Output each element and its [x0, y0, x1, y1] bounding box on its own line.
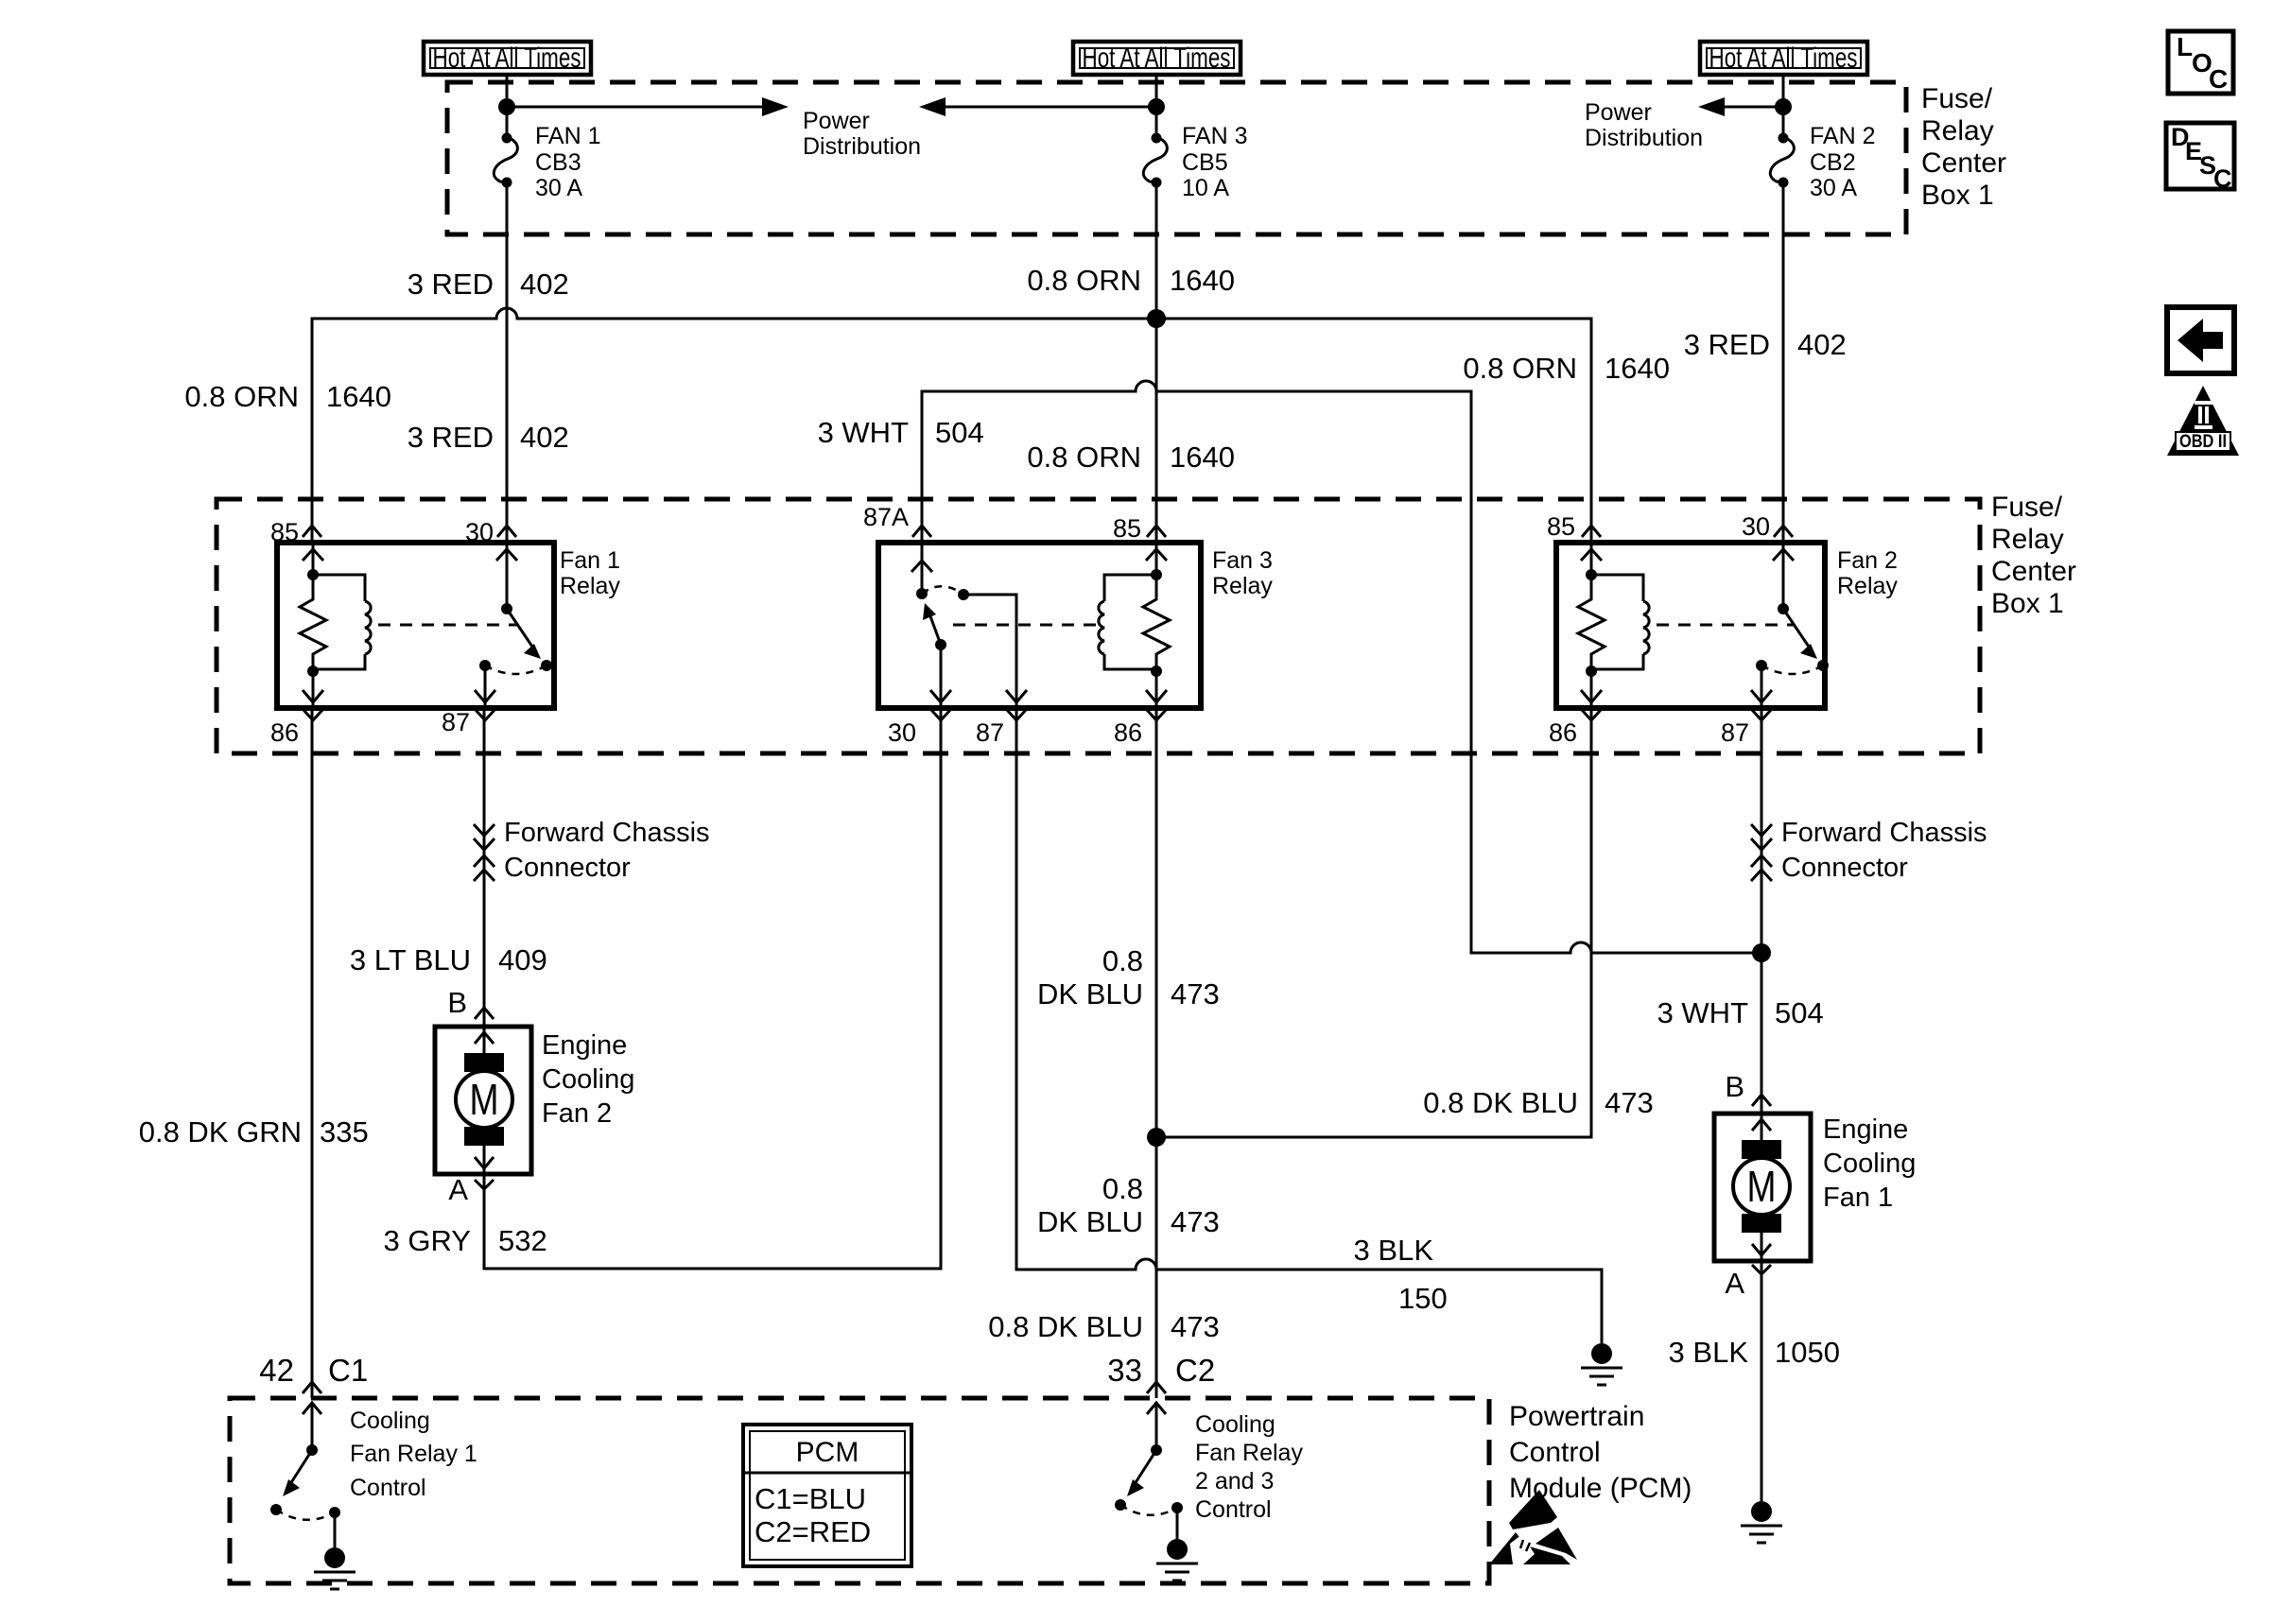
svg-text:30: 30	[1742, 512, 1770, 541]
label Fan 1 Relay	[560, 547, 620, 599]
relay K1 Fan 1 Relay box	[277, 543, 554, 708]
label Fan 2 Relay	[1837, 547, 1898, 599]
value label 3 BLK 1050	[1669, 1336, 1840, 1369]
switch arm end dot relay2	[1817, 660, 1829, 671]
svg-text:M: M	[1747, 1162, 1777, 1211]
switch Cooling Fan Relay 2 and 3 Control	[1115, 1403, 1183, 1539]
switch Cooling Fan Relay 1 Control	[270, 1403, 340, 1547]
svg-text:Center: Center	[1921, 147, 2006, 179]
pin 85 entry arrow relay2	[1581, 549, 1602, 561]
pin 85 entry arrow relay3	[1146, 549, 1167, 561]
node Hot At All Times box 2	[1073, 42, 1241, 75]
wire arm anchor to pin 30 relay3	[940, 645, 943, 705]
svg-text:87A: 87A	[863, 503, 909, 531]
svg-text:33: 33	[1107, 1353, 1142, 1388]
wire contact 87 down relay1	[484, 665, 487, 705]
wire feed from Hot box 2	[1155, 75, 1158, 138]
svg-text:Fan 1: Fan 1	[560, 547, 620, 574]
pin 86 exit arrow relay3	[1146, 690, 1167, 702]
relay K2 Fan 2 Relay box	[1556, 543, 1825, 708]
fuse/relay center box 1 (middle) dashed boundary	[217, 499, 1980, 753]
svg-text:Cooling: Cooling	[1823, 1149, 1916, 1179]
svg-text:Relay: Relay	[1991, 524, 2064, 555]
arrowhead left	[1698, 97, 1725, 116]
pin 30 exit arrow relay3	[930, 690, 951, 702]
svg-text:Fuse/: Fuse/	[1921, 83, 1993, 114]
junction dot ORN at wire2	[1147, 309, 1166, 328]
svg-text:Fuse/: Fuse/	[1991, 492, 2063, 523]
junction dot 3 WHT at relay2-87 wire	[1752, 943, 1771, 962]
value label 3 RED 402 (wire 1, upper)	[408, 268, 569, 301]
svg-text:Engine: Engine	[1823, 1114, 1908, 1145]
svg-text:2 and 3: 2 and 3	[1195, 1468, 1274, 1494]
svg-text:0.8 DK BLU: 0.8 DK BLU	[988, 1310, 1143, 1343]
connector chevron pin B fan2	[475, 1008, 494, 1019]
value label 3 GRY 532	[384, 1224, 547, 1257]
wire CB5 output (0.8 ORN 1640)	[1155, 182, 1158, 545]
svg-text:C2: C2	[1175, 1353, 1215, 1388]
ground G105 (relay 1 control)	[314, 1547, 356, 1589]
label Powertrain Control Module (PCM)	[1509, 1401, 1692, 1504]
svg-text:85: 85	[1547, 512, 1575, 541]
pin 87 exit arrow relay1	[475, 690, 495, 702]
label Engine Cooling Fan 2	[542, 1030, 634, 1129]
label Fan 3 Relay	[1212, 547, 1273, 599]
value label 3 RED 402 (wire 1, lower)	[408, 421, 569, 454]
label Fuse/Relay Center Box 1 (top)	[1921, 83, 2006, 211]
value label 3 WHT 504 (left)	[818, 416, 984, 449]
svg-text:Fan Relay 1: Fan Relay 1	[350, 1441, 477, 1467]
svg-text:L: L	[2177, 32, 2193, 61]
value label 3 RED 402 (wire 3)	[1684, 328, 1847, 361]
svg-text:C1: C1	[328, 1353, 368, 1388]
svg-text:3 RED: 3 RED	[408, 268, 494, 301]
svg-text:402: 402	[1797, 328, 1847, 361]
svg-text:1050: 1050	[1775, 1336, 1840, 1369]
PCM connector legend box	[743, 1425, 911, 1566]
svg-text:3 WHT: 3 WHT	[818, 416, 910, 449]
svg-text:3 BLK: 3 BLK	[1354, 1234, 1434, 1267]
PCM dashed boundary	[230, 1398, 1489, 1583]
switch contact 87 dot relay2	[1756, 660, 1767, 671]
svg-text:Engine: Engine	[542, 1030, 627, 1061]
wire 3 BLK 1050 to ground	[1761, 1261, 1763, 1501]
switch arm arrowhead relay2	[1800, 644, 1817, 659]
resistor relay3 coil suppression	[1143, 575, 1170, 671]
connector chevron pin 42 C1	[303, 1382, 321, 1393]
wire coil to pin 86 relay2	[1590, 671, 1593, 705]
pin 87 exit arrow relay3	[1006, 690, 1027, 702]
svg-text:CB2: CB2	[1810, 149, 1856, 176]
svg-text:CB5: CB5	[1182, 149, 1228, 176]
wire relay2-87 / 3 WHT 504 down	[1761, 708, 1763, 1114]
wire contact 87 down relay2	[1761, 665, 1763, 705]
arrowhead left	[919, 97, 946, 116]
switch arm relay3	[930, 616, 941, 645]
circuit breaker CB3 FAN 1 30 A	[494, 123, 600, 201]
value label 0.8 DK BLU 473 (bottom, single line)	[988, 1310, 1219, 1343]
wire power distribution left	[507, 106, 768, 109]
svg-text:402: 402	[520, 268, 569, 301]
value label 3 WHT 504 (right)	[1657, 996, 1824, 1029]
label Power Distribution (right)	[1585, 99, 1703, 151]
resistor relay2 coil suppression	[1578, 575, 1605, 671]
wire power distribution right	[1719, 106, 1783, 109]
pin 87A entry arrow relay3	[911, 561, 932, 572]
svg-text:DK BLU: DK BLU	[1037, 1205, 1143, 1238]
ground G103 (3 BLK 150)	[1581, 1343, 1622, 1385]
fuse/relay center box 1 (top) dashed boundary	[447, 82, 1906, 234]
svg-text:150: 150	[1398, 1282, 1448, 1315]
svg-text:0.8 DK GRN: 0.8 DK GRN	[139, 1115, 302, 1149]
svg-text:0.8 ORN: 0.8 ORN	[1463, 352, 1577, 385]
switch arm arrowhead relay3	[923, 603, 936, 620]
svg-text:42: 42	[259, 1353, 294, 1388]
node coil top dot relay1	[307, 569, 319, 580]
svg-text:473: 473	[1171, 977, 1220, 1011]
label Power Distribution (left)	[803, 108, 921, 160]
connector chevron pin 30 relay2	[1774, 526, 1793, 537]
icon DESC box	[2166, 123, 2234, 193]
svg-text:473: 473	[1605, 1086, 1654, 1119]
label Cooling Fan Relay 2 and 3 Control	[1195, 1411, 1303, 1523]
junction dot	[1775, 98, 1792, 115]
wire 0.8 ORN 1640 horizontal net with hop over wire 402	[312, 308, 1591, 545]
wire pin85 to coil relay2	[1590, 545, 1593, 575]
pin 87 exit arrow relay2	[1751, 690, 1772, 702]
connector Forward Chassis Connector (right)	[1751, 824, 1772, 881]
connector chevron pin 85 relay2	[1582, 526, 1601, 537]
resistor relay1 coil suppression	[300, 575, 326, 671]
connector chevron pin 87A relay3	[912, 526, 931, 537]
junction dot	[1148, 98, 1165, 115]
connector chevron pin B fan1	[1752, 1095, 1771, 1106]
node coil bottom dot relay2	[1586, 665, 1597, 677]
mechanical link dashed relay3	[953, 624, 1097, 627]
svg-text:Distribution: Distribution	[803, 133, 921, 160]
svg-text:87: 87	[442, 708, 470, 736]
wire coil to pin 86 relay1	[312, 671, 315, 705]
value label 0.8 DK GRN 335	[139, 1115, 369, 1149]
svg-text:B: B	[1725, 1070, 1744, 1103]
coil relay2	[1591, 575, 1649, 669]
svg-text:Center: Center	[1991, 556, 2076, 587]
svg-text:Fan 2: Fan 2	[542, 1098, 612, 1129]
svg-text:Connector: Connector	[504, 853, 631, 883]
motor M Engine Cooling Fan 2	[435, 1027, 531, 1174]
wire pin 87A to pivot relay3	[921, 545, 924, 594]
arrowhead right	[762, 97, 789, 116]
svg-text:FAN 2: FAN 2	[1810, 123, 1875, 149]
switch arm relay2	[1783, 609, 1813, 652]
circuit breaker CB2 FAN 2 30 A	[1770, 123, 1875, 201]
svg-text:87: 87	[1721, 718, 1749, 747]
node coil bottom dot relay3	[1151, 665, 1162, 677]
switch pivot dot (87A contact) relay3	[916, 588, 928, 599]
motor M Engine Cooling Fan 1	[1714, 1114, 1811, 1261]
connector chevron pin 86 relay1	[304, 710, 322, 720]
wire 3 GRY 532 from fan2 A to relay3 pin 30	[484, 708, 941, 1269]
svg-text:Fan Relay: Fan Relay	[1195, 1440, 1303, 1466]
value label 0.8 ORN 1640 (left)	[184, 380, 391, 413]
switch alternate contact dot relay3	[958, 589, 969, 600]
value label 0.8 DK BLU 473 (right branch)	[1423, 1086, 1653, 1119]
svg-text:1640: 1640	[1605, 352, 1670, 385]
svg-text:Power: Power	[1585, 99, 1652, 126]
value label 0.8 ORN 1640 (middle, above relay 3 pin 85)	[1027, 441, 1235, 474]
svg-text:0.8 DK BLU: 0.8 DK BLU	[1423, 1086, 1578, 1119]
connector chevron pin 87 relay3	[1007, 710, 1026, 720]
svg-text:PCM: PCM	[796, 1437, 859, 1468]
svg-text:532: 532	[498, 1224, 547, 1257]
svg-text:86: 86	[1114, 718, 1142, 747]
mechanical link dashed relay2	[1657, 624, 1795, 627]
wire 0.8 DK BLU 473 branch to relay2-86	[1156, 708, 1591, 1137]
svg-text:A: A	[448, 1173, 468, 1206]
svg-text:C2=RED: C2=RED	[755, 1515, 871, 1548]
svg-text:0.8 ORN: 0.8 ORN	[1027, 441, 1141, 474]
connector chevron pin 30 relay1	[497, 526, 516, 537]
svg-text:86: 86	[270, 718, 299, 747]
icon OBD II triangle	[2167, 386, 2239, 456]
svg-text:C: C	[2209, 64, 2228, 94]
coil relay3	[1099, 575, 1156, 669]
connector chevron pin 33 C2	[1147, 1382, 1166, 1393]
wire 3 BLK 150 with hop over center wire	[1016, 708, 1602, 1343]
svg-text:DK BLU: DK BLU	[1037, 977, 1143, 1011]
wire alternate contact to pin 87 relay3	[963, 595, 1016, 705]
svg-text:OBD II: OBD II	[2179, 432, 2227, 452]
svg-text:Cooling: Cooling	[350, 1408, 430, 1434]
svg-text:Relay: Relay	[560, 573, 620, 599]
svg-text:Hot At All Times: Hot At All Times	[1709, 43, 1858, 74]
value label 3 LT BLU 409	[350, 943, 547, 976]
relay K3 Fan 3 Relay box	[878, 543, 1201, 708]
connector chevron pin A fan1	[1752, 1265, 1771, 1274]
junction dot DK BLU	[1147, 1128, 1166, 1147]
svg-text:0.8: 0.8	[1102, 1172, 1143, 1205]
switch arm relay1	[507, 609, 536, 652]
svg-text:Control: Control	[1195, 1496, 1272, 1523]
wire pin30 to switch pivot relay2	[1782, 545, 1785, 609]
pin 86 exit arrow relay2	[1581, 690, 1602, 702]
svg-text:Hot At All Times: Hot At All Times	[433, 43, 581, 74]
svg-text:409: 409	[498, 943, 547, 976]
svg-text:3 BLK: 3 BLK	[1669, 1336, 1749, 1369]
switch pivot dot relay1	[501, 603, 512, 614]
svg-text:Fan 2: Fan 2	[1837, 547, 1898, 574]
svg-text:Control: Control	[350, 1475, 426, 1501]
svg-text:Connector: Connector	[1781, 853, 1908, 883]
connector chevron pin 30 relay3	[931, 710, 950, 720]
svg-text:Forward Chassis: Forward Chassis	[1781, 818, 1987, 848]
connector Forward Chassis Connector (left)	[474, 824, 495, 881]
switch travel dashed arc relay1	[485, 665, 547, 674]
svg-text:85: 85	[1113, 514, 1141, 543]
switch arm end dot relay1	[541, 660, 552, 671]
label Forward Chassis Connector (right)	[1781, 818, 1987, 883]
switch travel dashed arc relay3	[922, 586, 963, 595]
wire CB3 output (3 RED 402)	[506, 182, 509, 545]
svg-text:Control: Control	[1509, 1437, 1601, 1468]
wire power distribution middle	[940, 106, 1156, 109]
svg-text:30 A: 30 A	[535, 175, 582, 201]
wire coil to pin 86 relay3	[1155, 671, 1158, 705]
svg-text:1640: 1640	[326, 380, 391, 413]
circuit breaker CB5 FAN 3 10 A	[1143, 123, 1247, 201]
value label 0.8 ORN 1640 (top middle)	[1027, 264, 1235, 297]
wire 3 WHT 504 net: relay3 87A up, across with hop over wire2, down, across with hop, to relay2-87 wire	[922, 381, 1761, 953]
svg-text:504: 504	[1775, 996, 1824, 1029]
wire pin85 to coil relay3	[1155, 545, 1158, 575]
svg-text:Box 1: Box 1	[1921, 180, 1994, 211]
label Fuse/Relay Center Box 1 (middle)	[1991, 492, 2076, 619]
svg-text:86: 86	[1549, 718, 1577, 747]
svg-text:1640: 1640	[1170, 441, 1235, 474]
switch contact 87 dot relay1	[479, 660, 491, 671]
pin 85 entry arrow relay1	[303, 549, 323, 561]
connector chevron pin 85 relay1	[303, 526, 321, 537]
svg-text:Fan 1: Fan 1	[1823, 1183, 1893, 1213]
connector chevron pin 86 relay2	[1582, 710, 1601, 720]
switch travel dashed arc relay2	[1761, 665, 1823, 674]
svg-text:Powertrain: Powertrain	[1509, 1401, 1644, 1432]
label Engine Cooling Fan 1	[1823, 1114, 1916, 1213]
svg-text:0.8 ORN: 0.8 ORN	[1027, 264, 1141, 297]
svg-text:C1=BLU: C1=BLU	[755, 1482, 866, 1515]
node coil top dot relay3	[1151, 569, 1162, 580]
svg-text:C: C	[2213, 164, 2232, 193]
connector chevron pin A fan2	[475, 1180, 494, 1189]
svg-text:3 LT BLU: 3 LT BLU	[350, 943, 471, 976]
junction dot	[498, 98, 515, 115]
svg-text:Cooling: Cooling	[542, 1064, 634, 1095]
svg-text:473: 473	[1171, 1310, 1220, 1343]
label Cooling Fan Relay 1 Control	[350, 1408, 477, 1501]
svg-text:3 RED: 3 RED	[1684, 328, 1770, 361]
svg-text:Distribution: Distribution	[1585, 125, 1703, 151]
svg-text:3 GRY: 3 GRY	[384, 1224, 471, 1257]
svg-text:Forward Chassis: Forward Chassis	[504, 818, 710, 848]
node coil top dot relay2	[1586, 569, 1597, 580]
svg-text:0.8: 0.8	[1102, 944, 1143, 977]
pin 86 exit arrow relay1	[303, 690, 323, 702]
ground G106 (relay 2 and 3 control)	[1156, 1539, 1198, 1581]
svg-text:87: 87	[976, 718, 1004, 747]
svg-text:Relay: Relay	[1212, 573, 1273, 599]
svg-text:FAN 1: FAN 1	[535, 123, 600, 149]
icon LOC box	[2168, 31, 2233, 94]
pin 30 entry arrow relay1	[496, 549, 517, 561]
svg-text:A: A	[1725, 1267, 1744, 1300]
connector chevron pin 86 relay3	[1147, 710, 1166, 720]
ESD sensitive device symbol	[1489, 1490, 1577, 1564]
mechanical link dashed relay1	[378, 624, 518, 627]
svg-text:10 A: 10 A	[1182, 175, 1229, 201]
svg-text:0.8 ORN: 0.8 ORN	[184, 380, 299, 413]
svg-text:Cooling: Cooling	[1195, 1411, 1275, 1438]
svg-text:B: B	[447, 986, 467, 1019]
svg-text:473: 473	[1171, 1205, 1220, 1238]
svg-text:3 WHT: 3 WHT	[1657, 996, 1749, 1029]
wire pin30 to switch pivot relay1	[506, 545, 509, 609]
svg-text:335: 335	[320, 1115, 369, 1149]
svg-text:FAN 3: FAN 3	[1182, 123, 1247, 149]
svg-text:3 RED: 3 RED	[408, 421, 494, 454]
svg-text:CB3: CB3	[535, 149, 581, 176]
switch arm anchor dot relay3	[935, 639, 946, 650]
svg-text:Hot At All Times: Hot At All Times	[1083, 43, 1231, 74]
coil relay1	[313, 575, 371, 669]
connector chevron pin 87 relay1	[476, 710, 495, 720]
switch pivot dot relay2	[1778, 603, 1789, 614]
connector chevron pin 85 relay3	[1147, 526, 1166, 537]
wire 0.8 DK BLU 473 (center vertical)	[1155, 708, 1158, 1398]
svg-text:1640: 1640	[1170, 264, 1235, 297]
ground G104 (3 BLK 1050)	[1741, 1501, 1782, 1543]
wire 0.8 DK GRN 335	[311, 708, 314, 1398]
connector chevron pin 87 relay2	[1752, 710, 1771, 720]
node Hot At All Times box 1	[424, 42, 591, 75]
node Hot At All Times box 3	[1700, 42, 1867, 75]
switch arm arrowhead relay1	[524, 644, 541, 659]
wire pin85 to coil relay1	[312, 545, 315, 575]
wire CB2 output (3 RED 402)	[1782, 182, 1785, 545]
node coil bottom dot relay1	[307, 665, 319, 677]
value label 0.8 DK BLU 473 (lower, two-line)	[1037, 1172, 1220, 1238]
svg-text:Relay: Relay	[1837, 573, 1898, 599]
label Forward Chassis Connector (left)	[504, 818, 710, 883]
value label 0.8 DK BLU 473 (upper, two-line)	[1037, 944, 1220, 1011]
svg-text:Box 1: Box 1	[1991, 588, 2064, 619]
svg-text:30 A: 30 A	[1810, 175, 1857, 201]
value label 3 BLK 150	[1354, 1234, 1448, 1315]
svg-text:402: 402	[520, 421, 569, 454]
value label 0.8 ORN 1640 (right, on relay 2 pin 85 wire)	[1463, 352, 1670, 385]
svg-text:Power: Power	[803, 108, 870, 134]
wire 3 LT BLU 409	[483, 708, 486, 1027]
svg-text:Relay: Relay	[1921, 115, 1994, 147]
pin 30 entry arrow relay2	[1773, 549, 1794, 561]
svg-text:M: M	[470, 1075, 499, 1124]
wire feed from Hot box 3	[1782, 75, 1785, 138]
svg-text:504: 504	[935, 416, 984, 449]
icon back arrow box	[2167, 307, 2234, 373]
svg-text:30: 30	[888, 718, 916, 747]
wire feed from Hot box 1	[506, 75, 509, 138]
svg-text:Fan 3: Fan 3	[1212, 547, 1273, 574]
